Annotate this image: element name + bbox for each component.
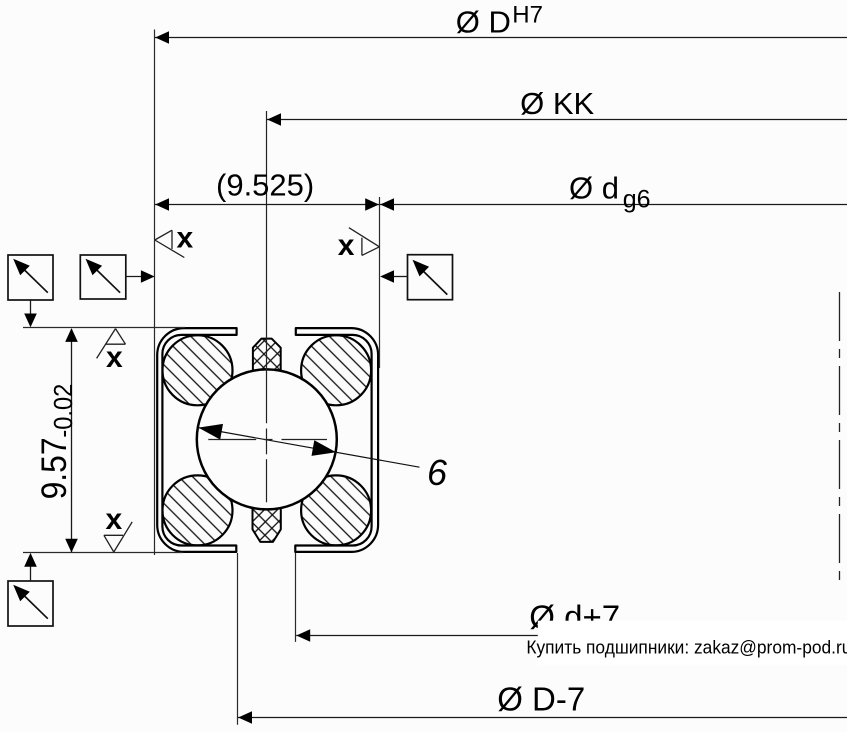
connector S2 to D extension — [126, 276, 143, 278]
arrow d+7 — [296, 629, 310, 642]
extension line d+7 — [295, 553, 297, 642]
arrow D-7 — [238, 711, 252, 724]
9.57 dimension line — [71, 329, 73, 552]
right axis centerline (dash-dot) — [839, 292, 841, 582]
svg-text:6: 6 — [427, 452, 448, 493]
arrow D — [155, 31, 169, 44]
guide line top-left — [23, 327, 185, 329]
dimension line O KK — [267, 119, 847, 121]
dimension line O D-7 — [238, 717, 847, 719]
dimension line O d+7 — [296, 635, 847, 637]
dimension line O D H7 — [155, 37, 847, 39]
svg-text:(9.525): (9.525) — [216, 168, 314, 203]
surface mark on top guide (triangle up) — [97, 329, 126, 359]
extension line d g6 — [379, 197, 381, 368]
extension line D left — [154, 30, 156, 556]
arrow 9.57 bottom — [65, 539, 78, 553]
outer ring left shell — [157, 328, 236, 552]
svg-text:g6: g6 — [623, 186, 651, 214]
datum square S3 — [408, 255, 453, 300]
datum square S4 — [8, 581, 53, 626]
bore circle (large center circle) — [197, 369, 337, 509]
leader arrowhead right — [312, 440, 337, 456]
arrow 9.57 top — [65, 328, 78, 342]
horizontal centerline — [208, 439, 327, 441]
svg-text:9.57: 9.57 — [36, 437, 75, 499]
leader arrowhead left — [198, 424, 223, 440]
arrow KK — [267, 113, 281, 126]
svg-text:Ø d: Ø d — [569, 170, 619, 205]
connector S3 to d extension — [392, 276, 408, 278]
svg-text:x: x — [338, 229, 355, 262]
inner ring top segment (hex) — [253, 339, 281, 375]
svg-text:H7: H7 — [512, 2, 543, 29]
datum square S1 — [8, 255, 53, 300]
ball diameter leader line — [198, 428, 419, 468]
svg-text:x: x — [106, 341, 123, 374]
ball bottom-right — [301, 475, 371, 545]
arrow d g6 — [380, 198, 394, 211]
surface mark right (triangle at d extension) — [349, 228, 380, 256]
dimension line (9.525) and O d g6 — [155, 204, 847, 206]
ball bottom-left — [163, 475, 233, 545]
svg-text:Ø D-7: Ø D-7 — [497, 681, 585, 718]
extension line D-7 — [237, 553, 239, 725]
datum square S2 — [80, 255, 126, 299]
ball top-left — [163, 335, 233, 405]
guide line bottom-left — [23, 552, 183, 554]
svg-text:Ø D: Ø D — [456, 5, 511, 40]
outer ring right shell — [295, 328, 378, 552]
vertical centerline — [266, 111, 268, 502]
svg-text:x: x — [177, 222, 194, 255]
arrow 9.525 right — [365, 198, 379, 211]
arrow 9.525 left — [155, 198, 169, 211]
surface mark left (triangle at D extension) — [155, 230, 185, 257]
watermark box — [538, 621, 847, 665]
svg-text:Ø KK: Ø KK — [520, 86, 594, 121]
S4 rise line and arrow — [30, 562, 32, 581]
ball top-right — [301, 335, 371, 405]
svg-text:Купить подшипники: zakaz@prom-: Купить подшипники: zakaz@prom-pod.ru — [526, 637, 847, 658]
inner ring bottom segment (hex) — [253, 505, 281, 542]
svg-text:x: x — [106, 503, 123, 536]
S1 drop line and arrow — [30, 299, 32, 318]
surface mark on bottom guide (triangle down) — [104, 522, 132, 552]
svg-text:-0.02: -0.02 — [50, 384, 78, 438]
